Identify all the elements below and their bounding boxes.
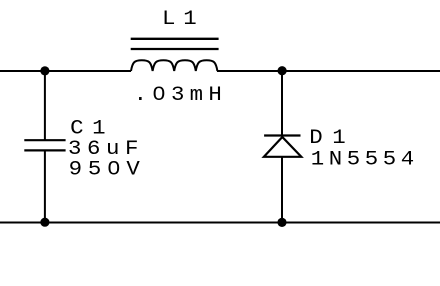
svg-text:C1: C1: [70, 117, 114, 140]
inductor L1 core line upper: [131, 38, 219, 40]
wire left branch lower: [44, 150, 46, 222]
wire right branch lower: [281, 157, 283, 223]
diode D1 triangle: [264, 137, 301, 157]
inductor L1 coil: [131, 60, 217, 71]
white cover over Liberation Mono zero dot (.03mH): [156, 91, 161, 97]
inductor L1 core line lower: [131, 48, 219, 50]
svg-text:L1: L1: [162, 8, 204, 31]
svg-text:D1: D1: [309, 127, 355, 150]
wire right branch upper: [281, 71, 283, 136]
svg-text:36uF: 36uF: [68, 138, 144, 161]
node junction top-right: [278, 66, 287, 75]
capacitor C1 bottom plate: [24, 149, 65, 151]
node junction bottom-left: [40, 218, 49, 227]
white cover over Liberation Mono zero dot (950V): [112, 165, 117, 171]
wire bottom rail: [0, 222, 440, 224]
node junction bottom-right: [277, 218, 286, 227]
wire left branch upper: [44, 71, 46, 140]
svg-text:950V: 950V: [69, 159, 146, 182]
wire top rail left segment: [0, 70, 131, 72]
wire top rail right segment: [217, 70, 440, 72]
diode D1 cathode bar: [264, 134, 300, 136]
svg-text:1N5554: 1N5554: [311, 148, 419, 171]
capacitor C1 top plate: [24, 139, 65, 141]
svg-text:.03mH: .03mH: [134, 84, 227, 107]
node junction top-left: [40, 66, 49, 75]
